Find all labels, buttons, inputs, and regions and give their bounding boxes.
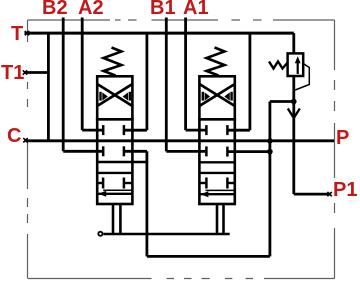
valve V1 divider thin box bottom	[97, 172, 132, 174]
compensator CP2 X symbol	[199, 84, 234, 106]
enclosure dashed border	[28, 20, 335, 279]
valve V2 spool body	[199, 119, 234, 204]
relief valve RV internal arrow	[297, 62, 299, 74]
valve V2 box3 left stub	[199, 182, 206, 184]
wire: port B2 drop	[62, 18, 65, 152]
compensator CP2 spring	[207, 48, 225, 76]
valve V2 arrow on bottom divider	[200, 191, 208, 197]
node T1 tick	[23, 70, 27, 74]
valve V1 box1 right stub out	[124, 129, 147, 132]
port label T	[11, 23, 23, 46]
valve V2 inner line lower	[206, 189, 235, 191]
wire: tank stubs below valve V1	[113, 204, 120, 234]
valve V2 box3 right stub	[227, 182, 234, 184]
wire: A1 feed into valve V2	[186, 129, 207, 132]
node: junction dot RV branch	[291, 99, 297, 105]
valve V2 box1 right stub out	[227, 129, 250, 132]
wire: T1 line	[25, 71, 49, 74]
valve V2 box1 left port bar	[205, 125, 208, 135]
wire: port A1 drop	[184, 18, 187, 131]
valve V1 box2 right stub out	[124, 150, 147, 153]
relief valve RV pilot flag	[295, 64, 309, 91]
wire: B2 feed into valve V1	[63, 150, 103, 153]
port label P	[336, 127, 349, 150]
valve V2 box2 right port bar	[226, 147, 229, 157]
port label C	[7, 125, 21, 148]
valve V1 box3 left port bar	[102, 178, 105, 189]
valve V2 divider thin box bottom	[199, 172, 234, 174]
port label T1	[1, 62, 24, 85]
valve V2 divider thin box top	[199, 161, 234, 163]
valve V1 box1 right port bar	[123, 125, 126, 135]
wire: P1 takeoff	[294, 193, 331, 196]
port label P1	[333, 179, 357, 202]
port label A2	[78, 0, 104, 20]
valve V1 box2 right port bar	[123, 146, 126, 156]
compensator CP1 right check arrow	[129, 92, 131, 101]
wire: port A2 drop	[81, 18, 84, 131]
valve V1 box2 left port bar	[102, 146, 105, 156]
wire: drain bus	[103, 233, 229, 236]
flow arrow on RV output line	[288, 109, 300, 119]
wire: RV output down to P1 elbow	[292, 76, 295, 194]
wire: port B1 drop	[165, 18, 168, 152]
wire: B1 feed into valve V2	[166, 150, 206, 153]
node P1 tick	[327, 192, 331, 196]
valve V2 divider bottom position	[199, 193, 234, 195]
valve V2 box1 right port bar	[226, 125, 229, 135]
node: junction dot on P line	[267, 138, 273, 144]
compensator CP1 spring	[104, 48, 122, 76]
compensator CP2 right check arrow	[230, 92, 232, 101]
valve V1 box1 left port bar	[102, 125, 105, 135]
valve V2 box2 right stub to P drop	[227, 150, 270, 153]
valve V1 divider thin box top	[97, 161, 147, 163]
valve V1 box3 left stub	[97, 182, 103, 184]
wire: V1 right port up to T rail	[145, 33, 148, 130]
wire: branch to P gallery	[270, 100, 294, 103]
wire: P gallery bottom run	[147, 255, 270, 258]
valve V2 box3 right port bar	[226, 178, 229, 189]
valve V1 inner line lower	[103, 189, 132, 191]
relief valve RV feed from T rail	[292, 33, 295, 53]
wire: A2 feed into valve V1	[82, 129, 103, 132]
wire: P gallery drop	[268, 102, 271, 257]
port label A1	[183, 0, 209, 20]
wire: V1 right lower port down to P gallery	[145, 151, 148, 256]
valve V1 box3 right port bar	[123, 178, 126, 189]
wire: V2 right port up to T rail	[248, 33, 251, 130]
compensator CP2 left check arrow	[202, 92, 204, 101]
valve V1 box3 right stub	[124, 182, 132, 184]
relief valve RV spring	[269, 62, 288, 69]
wire: tank stubs below valve V2	[217, 204, 224, 234]
compensator CP1 body	[97, 76, 132, 119]
port label B1	[150, 0, 176, 20]
valve V1 spool body	[97, 119, 132, 204]
compensator CP1 X symbol	[97, 84, 132, 106]
wire: T1 vertical to C line	[47, 33, 50, 141]
wire: T rail	[25, 32, 294, 35]
port label B2	[42, 0, 68, 20]
relief valve RV body	[288, 53, 304, 76]
compensator CP2 body	[199, 76, 234, 119]
valve V1 divider bottom position	[97, 193, 132, 195]
compensator CP1 left check arrow	[99, 92, 101, 101]
node: plug circle on drain bus	[98, 232, 102, 236]
valve V2 box2 left port bar	[205, 146, 208, 156]
valve V2 box3 left port bar	[205, 178, 208, 189]
node T tick	[25, 31, 29, 35]
wire: C to P bypass line	[26, 139, 335, 142]
node: junction dot V2 feed	[267, 149, 273, 155]
node C tick	[23, 138, 27, 142]
valve V1 arrow on bottom divider	[98, 191, 106, 197]
